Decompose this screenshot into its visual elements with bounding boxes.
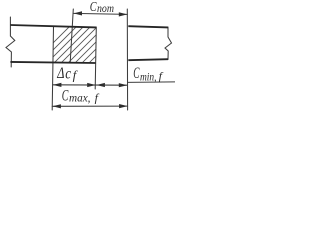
svg-text:C: C bbox=[90, 0, 97, 15]
svg-text:C: C bbox=[62, 88, 69, 105]
svg-text:max,: max, bbox=[69, 92, 91, 104]
svg-text:c: c bbox=[65, 65, 71, 82]
svg-text:min,: min, bbox=[140, 72, 157, 84]
svg-text:nom: nom bbox=[97, 1, 114, 15]
svg-text:C: C bbox=[133, 65, 139, 82]
svg-text:Δ: Δ bbox=[56, 65, 64, 82]
